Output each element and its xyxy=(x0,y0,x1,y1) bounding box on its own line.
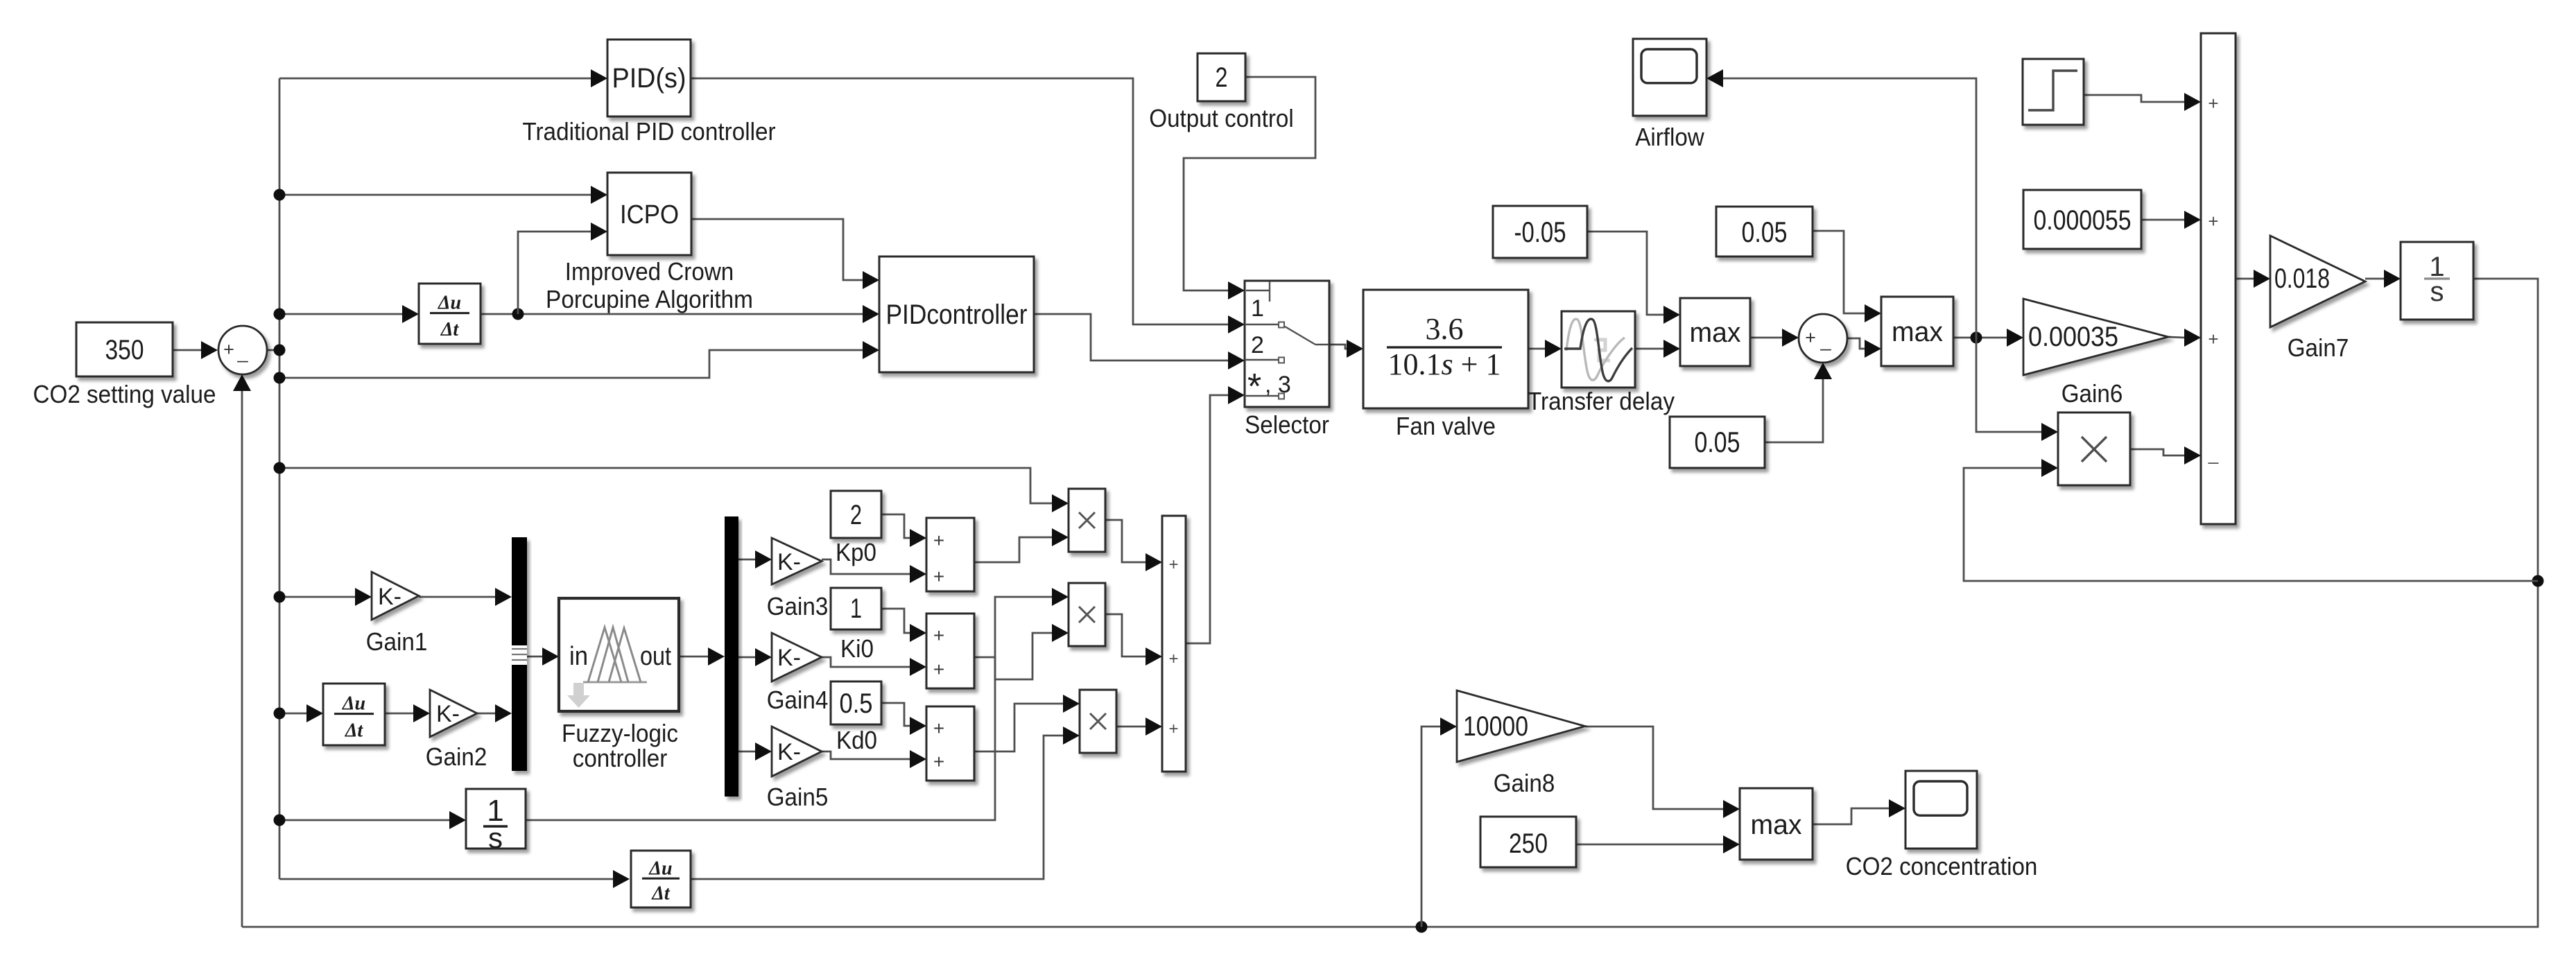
wire constant 0.05 bottom to sum2 bottom xyxy=(1765,379,1823,442)
wire constant 0.05 top to max2 input 1 xyxy=(1813,231,1865,313)
fuzzy sum vertical block xyxy=(1162,516,1186,772)
svg-text:Traditional PID controller: Traditional PID controller xyxy=(522,117,775,146)
svg-text:0.000055: 0.000055 xyxy=(2034,205,2132,236)
wire PID(s) output to Selector input 2 xyxy=(691,78,1228,324)
block Fan valve transfer function 3.6 over 10.1s+1 xyxy=(1363,290,1528,408)
wire bus to integrator 1/s left xyxy=(279,819,449,821)
wire max2 branch up-left to Airflow scope xyxy=(1723,78,1976,338)
svg-text:out: out xyxy=(640,642,671,671)
wire sum Kp output to product X1 input 2 xyxy=(974,537,1052,562)
svg-text:1: 1 xyxy=(850,593,862,624)
svg-text:CO2 setting value: CO2 setting value xyxy=(33,380,216,408)
wire bus to PID(s) xyxy=(279,78,591,80)
wire feedback branch to product Gain6 input 2 xyxy=(1964,468,2538,581)
wire sum1 output to bus xyxy=(267,349,279,351)
svg-text:Gain2: Gain2 xyxy=(426,742,487,771)
wire constant 0.000055 to big sum input 2 xyxy=(2141,219,2184,221)
svg-text:Fan valve: Fan valve xyxy=(1396,412,1496,440)
svg-text:s: s xyxy=(2430,277,2444,307)
wire max2 output junction xyxy=(1953,337,2007,339)
svg-text:+: + xyxy=(1168,720,1178,738)
wire PIDcontroller output to Selector input 3 xyxy=(1034,314,1228,360)
wire du/dt 2 output to Gain2 xyxy=(385,713,413,715)
wire sum Ki output to product X2 input 2 xyxy=(974,633,1052,679)
svg-text:2: 2 xyxy=(1216,62,1228,93)
constant 2 Kp0 xyxy=(831,491,881,538)
node junction on feedback at x 3660 xyxy=(2532,575,2544,587)
wire constant -0.05 to max1 input 1 xyxy=(1587,232,1663,315)
wire Gain4 output to sum Ki xyxy=(822,657,910,667)
gain 10000 Gain8 xyxy=(1457,690,1585,762)
wire Gain5 output to sum Kd xyxy=(822,751,910,759)
svg-text:CO2 concentration: CO2 concentration xyxy=(1846,852,2038,880)
wire Gain3 output to sum Kp xyxy=(822,559,910,574)
svg-text:_: _ xyxy=(1819,330,1831,351)
wire product X1 output to fuzzy sum input 1 xyxy=(1105,520,1146,562)
svg-text:2: 2 xyxy=(850,500,862,530)
wire bus to product X1 input 1 xyxy=(279,468,1052,503)
svg-text:K-: K- xyxy=(378,584,401,610)
wire Gain7 output to integrator 1/s xyxy=(2365,278,2384,280)
block du/dt derivative 2 xyxy=(323,684,385,745)
wire sum Kd output to product X3 input 1 xyxy=(974,704,1063,751)
big sum block vertical xyxy=(2201,33,2236,524)
svg-text:Improved Crown: Improved Crown xyxy=(565,257,734,286)
wire bus to ICPO input 1 xyxy=(279,194,591,196)
block max3 xyxy=(1740,788,1813,860)
svg-text:Δt: Δt xyxy=(345,720,364,742)
sum block Kp xyxy=(926,518,974,591)
wire ICPO output to PIDcontroller input 1 xyxy=(691,219,863,280)
svg-text:Airflow: Airflow xyxy=(1635,123,1705,151)
svg-text:Fuzzy-logic: Fuzzy-logic xyxy=(562,719,678,747)
svg-text:Gain3: Gain3 xyxy=(767,592,829,620)
svg-text:Transfer delay: Transfer delay xyxy=(1528,387,1675,415)
svg-text:K-: K- xyxy=(777,549,801,575)
wire sum2 output to max2 input 2 xyxy=(1847,338,1865,349)
constant 1 Ki0 xyxy=(831,588,881,629)
gain 0.00035 Gain6 xyxy=(2023,299,2168,375)
block max1 xyxy=(1680,298,1750,366)
wire feedback into sum1 bottom xyxy=(241,391,243,927)
svg-text:+: + xyxy=(1168,555,1178,574)
constant 0.000055 xyxy=(2023,190,2141,249)
svg-text:Ki0: Ki0 xyxy=(840,634,874,663)
wire Output control 2 to Selector input 1 xyxy=(1184,77,1315,290)
wire bus bottom to du/dt derivative 3 xyxy=(279,878,613,880)
svg-text:max: max xyxy=(1690,318,1741,348)
constant 0.05 top xyxy=(1716,207,1813,257)
svg-text:+: + xyxy=(933,566,944,587)
node junction after max2 xyxy=(1971,332,1982,344)
svg-text:+: + xyxy=(933,625,944,646)
wire Gain1 output to mux xyxy=(419,596,495,598)
svg-text:s: s xyxy=(488,821,503,854)
svg-text:2: 2 xyxy=(1251,332,1264,358)
svg-text:max: max xyxy=(1892,317,1943,347)
wire fuzzy PID sum output to Selector input 4 xyxy=(1186,395,1228,643)
demux bar xyxy=(725,516,738,797)
step source block xyxy=(2023,59,2084,125)
product X2 xyxy=(1069,583,1105,646)
svg-text:+: + xyxy=(2208,211,2218,232)
wire Gain8 output to max3 input 1 xyxy=(1585,727,1723,809)
constant 250 xyxy=(1480,817,1576,867)
wire integrator 1/s left output to product X2 input 1 xyxy=(526,597,1052,820)
svg-text:0.05: 0.05 xyxy=(1742,216,1788,248)
wire max2 branch down to product Gain6 input 1 xyxy=(1976,338,2041,432)
svg-text:10.1s + 1: 10.1s + 1 xyxy=(1388,347,1501,381)
wire error bus vertical xyxy=(279,78,281,879)
constant 0.5 Kd0 xyxy=(831,681,881,724)
wire bus to du/dt derivative 2 xyxy=(279,713,306,715)
block ICPO Improved Crown Porcupine Algorithm xyxy=(607,173,691,255)
product block Gain6 multiply xyxy=(2058,412,2130,485)
constant 0.05 bottom xyxy=(1670,417,1765,468)
svg-text:K-: K- xyxy=(436,701,460,727)
wire Fan valve output to Transfer delay xyxy=(1528,348,1545,350)
wire product X2 output to fuzzy sum input 2 xyxy=(1105,614,1146,657)
svg-text:PID(s): PID(s) xyxy=(612,63,686,94)
wire demux output 3 to Gain5 xyxy=(738,751,755,753)
wire du/dt 1 output to PIDcontroller input 2 xyxy=(481,313,863,315)
wire mux output to fuzzy controller xyxy=(527,656,542,658)
wire constant 2 to sum Kp xyxy=(881,514,910,538)
wire integrator output feedback loop right xyxy=(242,279,2538,927)
svg-text:+: + xyxy=(933,530,944,551)
svg-text:0.5: 0.5 xyxy=(840,688,873,719)
svg-text:PIDcontroller: PIDcontroller xyxy=(886,299,1028,330)
svg-text:10000: 10000 xyxy=(1463,711,1528,742)
svg-text:+: + xyxy=(223,339,234,360)
svg-text:+: + xyxy=(933,751,944,772)
integrator 1 over s right xyxy=(2401,242,2473,320)
wire Gain2 output to mux xyxy=(477,713,495,715)
svg-text:max: max xyxy=(1751,810,1802,840)
wire bus to PIDcontroller input 3 xyxy=(279,350,863,378)
svg-text:350: 350 xyxy=(105,335,144,365)
svg-text:Gain6: Gain6 xyxy=(2061,379,2123,408)
product X3 xyxy=(1080,690,1116,753)
block PID(s) Traditional PID controller xyxy=(607,40,691,116)
svg-text:0.05: 0.05 xyxy=(1695,426,1740,458)
wire gain 0.00035 output to big sum input 3 xyxy=(2168,337,2184,338)
integrator 1 over s left xyxy=(466,789,526,849)
svg-text:+: + xyxy=(933,718,944,739)
svg-text:+: + xyxy=(2208,93,2218,114)
svg-text:Selector: Selector xyxy=(1245,410,1329,439)
wire fuzzy controller output to demux xyxy=(679,656,708,658)
svg-text:0.018: 0.018 xyxy=(2274,263,2330,294)
block du/dt derivative 1 xyxy=(419,284,481,344)
svg-text:Δt: Δt xyxy=(440,319,460,340)
constant 2 Output control xyxy=(1198,53,1245,101)
constant -0.05 xyxy=(1493,206,1587,258)
block max2 xyxy=(1881,297,1953,366)
wire branch up to ICPO input 2 xyxy=(518,232,591,314)
svg-text:Output control: Output control xyxy=(1149,104,1294,132)
block Fuzzy-logic controller xyxy=(559,598,679,711)
gain 0.018 Gain7 xyxy=(2270,236,2365,327)
svg-text:K-: K- xyxy=(777,739,801,765)
svg-text:-0.05: -0.05 xyxy=(1514,216,1566,248)
block Transfer delay xyxy=(1562,311,1635,388)
wire Selector output to Fan valve xyxy=(1329,345,1347,349)
wire bus to Gain1 xyxy=(279,596,355,598)
svg-text:, 3: , 3 xyxy=(1265,372,1291,398)
svg-text:Gain5: Gain5 xyxy=(767,783,829,811)
svg-text:Gain4: Gain4 xyxy=(767,686,829,714)
node junction on du/dt1 output xyxy=(512,308,524,320)
sum block Kd xyxy=(926,706,974,781)
wire demux output 2 to Gain4 xyxy=(738,657,755,659)
wire du/dt 3 output to product X3 input 2 xyxy=(691,736,1063,879)
scope CO2 concentration xyxy=(1905,771,1977,849)
svg-text:ICPO: ICPO xyxy=(620,200,679,229)
svg-text:K-: K- xyxy=(777,645,801,671)
svg-text:Gain7: Gain7 xyxy=(2288,333,2349,362)
wire max1 output to sum2 xyxy=(1750,337,1782,339)
svg-text:1: 1 xyxy=(1251,295,1264,322)
constant 350 CO2 setting value xyxy=(76,322,173,376)
svg-text:Δu: Δu xyxy=(648,858,672,879)
wire step output to big sum input 1 xyxy=(2084,95,2184,102)
svg-text:Gain1: Gain1 xyxy=(366,627,428,656)
wire big sum output to Gain7 xyxy=(2236,278,2254,280)
wire bottom feedback up to Gain8 xyxy=(1421,727,1440,927)
svg-text:Δu: Δu xyxy=(438,293,461,314)
svg-text:Kp0: Kp0 xyxy=(836,538,876,566)
scope Airflow xyxy=(1633,39,1706,116)
svg-text:3.6: 3.6 xyxy=(1426,312,1464,346)
gain Gain4 K- xyxy=(772,633,822,681)
wire product Gain6 output to big sum input 4 xyxy=(2130,449,2184,455)
svg-text:Gain8: Gain8 xyxy=(1494,769,1555,797)
wire constant 1 to sum Ki xyxy=(881,609,910,633)
node bus junction dots xyxy=(274,189,286,201)
wire constant 250 to max3 input 2 xyxy=(1576,844,1723,846)
svg-text:+: + xyxy=(2208,329,2218,349)
wire demux output 1 to Gain3 xyxy=(738,559,755,561)
wire max3 output to CO2 concentration scope xyxy=(1813,808,1889,824)
gain Gain3 K- xyxy=(772,538,822,584)
sum junction 2 xyxy=(1799,314,1847,363)
svg-text:*: * xyxy=(1247,367,1261,407)
svg-text:Δt: Δt xyxy=(651,883,671,905)
svg-text:in: in xyxy=(569,642,588,671)
node junction on bottom feedback for Gain8 xyxy=(1416,921,1428,933)
svg-text:_: _ xyxy=(236,342,248,363)
svg-text:+: + xyxy=(1805,327,1816,348)
gain Gain5 K- xyxy=(772,727,822,776)
product X1 xyxy=(1069,489,1105,552)
svg-text:Porcupine Algorithm: Porcupine Algorithm xyxy=(546,285,753,313)
svg-text:250: 250 xyxy=(1509,828,1548,859)
gain Gain1 K- xyxy=(372,572,419,620)
svg-text:0.00035: 0.00035 xyxy=(2028,322,2118,352)
wire constant 0.5 to sum Kd xyxy=(881,703,910,726)
sum junction 1 xyxy=(218,326,267,374)
svg-text:Δu: Δu xyxy=(342,693,365,714)
svg-text:_: _ xyxy=(2208,444,2219,464)
wire product X3 output to fuzzy sum input 3 xyxy=(1116,726,1146,728)
wire constant 350 to sum1 xyxy=(173,349,201,351)
block Selector multiport switch xyxy=(1245,281,1329,407)
svg-text:+: + xyxy=(933,659,944,680)
mux bar xyxy=(512,537,527,771)
gain Gain2 K- xyxy=(430,690,477,737)
block PIDcontroller xyxy=(879,257,1034,372)
svg-text:Kd0: Kd0 xyxy=(836,726,877,754)
svg-text:controller: controller xyxy=(573,744,668,772)
svg-text:+: + xyxy=(1168,650,1178,668)
wire Transfer delay output to max1 input 2 xyxy=(1635,348,1663,350)
sum block Ki xyxy=(926,614,974,688)
wire bus to du/dt derivative 1 xyxy=(279,313,402,315)
block du/dt derivative 3 xyxy=(631,851,691,907)
